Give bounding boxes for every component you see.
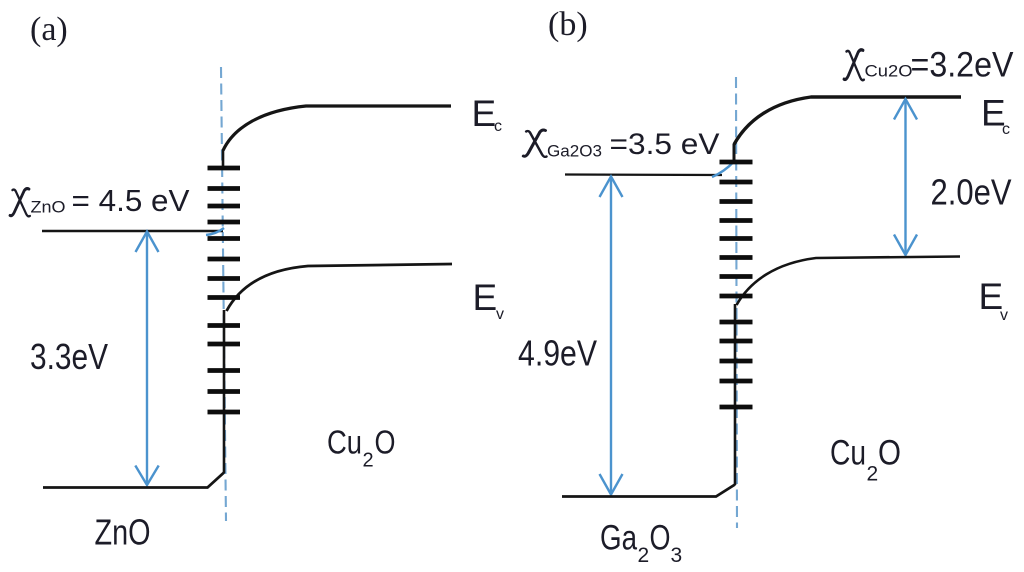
Ec band curve Cu2O (b) [734,97,961,145]
svg-text:=3.5 eV: =3.5 eV [610,128,720,161]
svg-text:(a): (a) [30,11,68,48]
Ec band edge stub at interface (b) [733,144,736,161]
Ec band curve Cu2O (a) [223,106,451,151]
svg-text:4.9eV: 4.9eV [518,333,597,374]
svg-text:v: v [496,306,504,323]
svg-text:2.0eV: 2.0eV [931,172,1012,213]
svg-text:3.3eV: 3.3eV [30,336,108,377]
svg-text:ZnO: ZnO [95,512,151,553]
svg-text:Cu: Cu [327,424,362,461]
band gap arrowhead up (b) [600,177,623,198]
interface state hatch marks (b) [720,162,753,407]
svg-text:O: O [650,519,671,558]
svg-text:(b): (b) [548,6,588,43]
band gap double arrow shaft (b) [610,178,612,494]
svg-text:Cu2O: Cu2O [865,62,913,81]
svg-text:v: v [1000,307,1008,324]
offset arrowhead up (b) [894,99,917,120]
band gap arrowhead down (b) [600,474,623,495]
band gap double arrow shaft (a) [146,233,148,484]
svg-text:c: c [1002,121,1010,138]
band gap arrowhead up (a) [136,232,159,253]
small blue arrow at chi line end (b) [712,162,734,178]
svg-text:O: O [375,424,396,461]
Ev band curve Cu2O (b) [737,257,961,306]
svg-text:= 4.5 eV: = 4.5 eV [72,183,190,218]
svg-text:2: 2 [638,544,650,567]
svg-text:Ga: Ga [600,519,637,558]
Ev band curve Cu2O (a) [227,264,453,311]
Ec band edge stub at interface (a) [222,150,225,167]
electron affinity line Ga2O3 (b) [565,173,722,176]
svg-text:=3.2eV: =3.2eV [911,46,1015,85]
svg-text:Cu: Cu [830,434,866,473]
Ev band line ZnO bottom (a) [43,473,224,488]
interface vertical black line (b) [734,304,737,485]
Ev band line Ga2O3 bottom (b) [562,485,735,497]
svg-text:E: E [472,93,497,134]
interface dashed line (b) [736,77,737,528]
svg-text:2: 2 [363,450,374,472]
band gap arrowhead down (a) [135,466,158,486]
svg-text:Ga2O3: Ga2O3 [547,142,602,161]
svg-text:O: O [878,434,901,473]
svg-text:E: E [473,277,498,318]
interface state hatch marks (a) [208,168,241,412]
conduction band offset arrow shaft (b) [904,99,906,255]
offset arrowhead down (b) [894,235,917,256]
chi Cu2O label [844,50,864,80]
svg-text:ZnO: ZnO [31,198,66,217]
svg-text:2: 2 [867,463,879,486]
chi ZnO label [10,189,30,217]
svg-text:c: c [494,118,502,135]
svg-text:3: 3 [671,544,683,567]
chi Ga2O3 label [523,130,546,157]
small blue arrow at chi line end (a) [206,228,224,235]
electron affinity line ZnO (a) [42,230,223,233]
interface dashed line (a) [221,67,226,521]
interface vertical black line (a) [223,310,226,473]
